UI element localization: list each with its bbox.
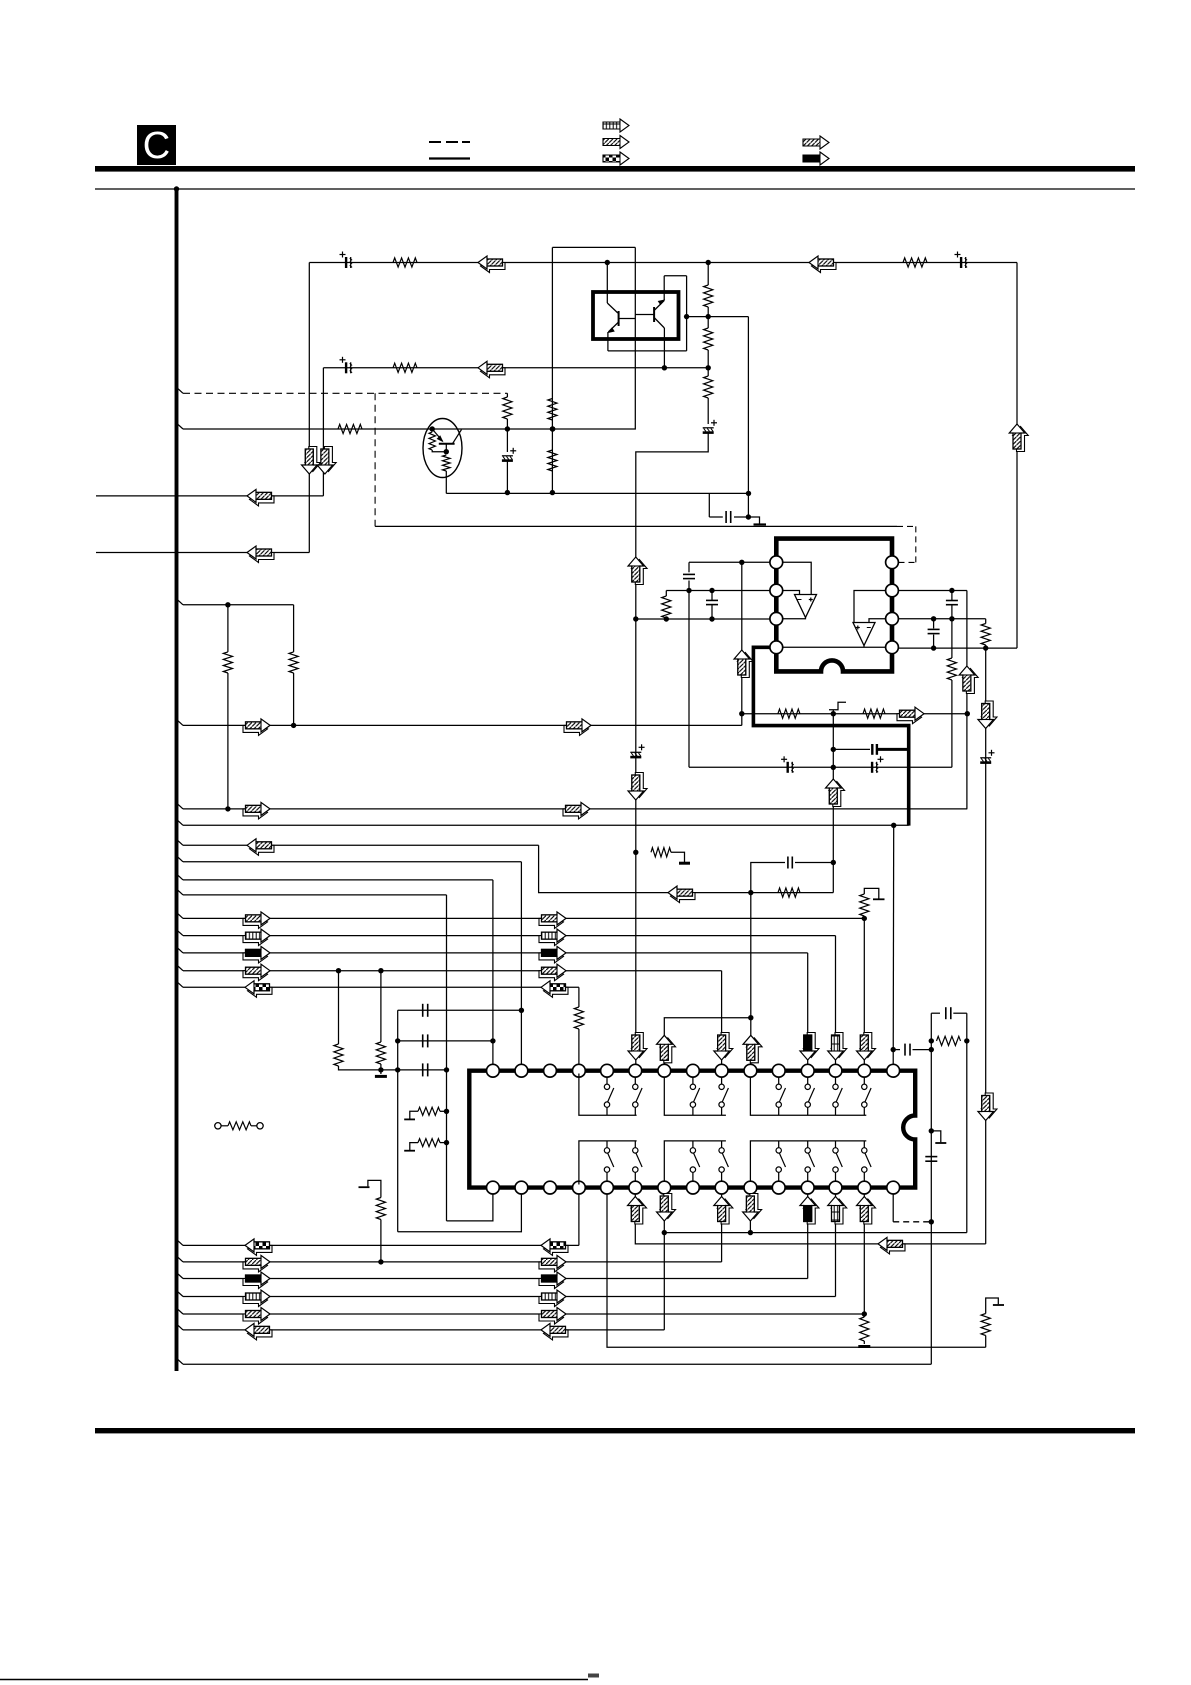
wire I from bus y918: [177, 913, 183, 918]
switch S10 bottom: [634, 1141, 636, 1148]
wire W2 return to margin y496: [96, 495, 323, 497]
net left drop x552: [551, 247, 553, 492]
capacitor C8 below pin1 corner: [688, 562, 690, 572]
node x708-y316: [706, 314, 711, 319]
wire W3 corner up to x635 segment: [553, 247, 636, 429]
U3 bottom switch common group3: [750, 1141, 866, 1181]
x751 drop to pin10 net: [750, 893, 752, 1065]
pin9b riser: [721, 1194, 723, 1262]
arrow left y893: [671, 890, 696, 903]
wire K drop to pin12t: [807, 953, 809, 1064]
wire W1 left drop x309: [308, 263, 310, 553]
node rail end x748: [746, 491, 751, 496]
U3 bottom switch common group1: [579, 1141, 637, 1185]
arrow right N3 b: [539, 1276, 564, 1289]
wire N2 y1262: [177, 1257, 183, 1262]
arrow left wireM b: [544, 984, 569, 997]
arrow down x986 upper: [981, 701, 997, 726]
wire W1 right drop to opamp pin4 net: [1016, 263, 1018, 649]
arrow right N2 a: [243, 1259, 268, 1272]
legend arrow black: [803, 152, 829, 165]
node x636-y852: [633, 850, 638, 855]
resistor R5 on W3: [338, 424, 362, 433]
vertical x398: [397, 1010, 399, 1231]
wire y714 right: [742, 713, 968, 715]
node pin2R-x952: [949, 588, 954, 593]
x864 drop to pin14t: [863, 918, 865, 1064]
switch S8 top: [863, 1077, 865, 1084]
Q1 base-emitter link: [432, 450, 446, 452]
arrow up x967: [963, 669, 979, 694]
resistor R26 x986 bottom: [985, 1336, 987, 1348]
arrow W1 left hatch: [481, 260, 506, 273]
capacitor C6 polarized on x636: [630, 744, 644, 757]
Q3 bar: [653, 307, 655, 322]
node x507-rail: [505, 490, 510, 495]
capacitor C13 polarized y767 right: [872, 756, 883, 773]
wire J from bus y936: [177, 930, 183, 935]
U3 top pin 7: [658, 1064, 671, 1077]
wire y767 with polarized caps: [689, 766, 952, 768]
node W2-x708: [706, 365, 711, 370]
node x967-y1041: [964, 1038, 969, 1043]
arrow down on x309: [305, 447, 321, 472]
net top link y247: [552, 246, 635, 248]
wire N4 y1297: [177, 1291, 183, 1296]
node wireI-x864: [862, 916, 867, 921]
legend arrow hatch: [603, 136, 629, 149]
resistor R13 on y714: [778, 709, 800, 718]
arrow down pin7b: [660, 1194, 676, 1219]
U3 top pin 15: [887, 1064, 900, 1077]
node x552-y429: [550, 426, 555, 431]
node x712-y619: [709, 616, 714, 621]
A1 input link from pin2: [783, 591, 800, 595]
capacitor C12 polarized y767 left: [781, 756, 794, 773]
U3 bottom pin 4: [573, 1181, 586, 1194]
arrow right wireL b: [539, 968, 564, 981]
ground bar below R28: [858, 1345, 870, 1348]
capacitor C19 y1041: [422, 1034, 424, 1047]
node y893-x751: [748, 890, 753, 895]
U3 top pin 4: [573, 1064, 586, 1077]
arrow up x742: [738, 653, 754, 678]
node x931-y1041: [929, 1038, 934, 1043]
link from C5 to long vertical x636: [636, 433, 708, 1064]
resistor R11 right of x636: [651, 848, 671, 857]
switch S14 bottom: [807, 1141, 809, 1148]
resistor R13b on y714: [863, 709, 885, 718]
arrow right wireC b: [563, 806, 588, 819]
arrow W2 left hatch: [481, 365, 506, 378]
capacitor C2 polarized on W1 right: [955, 252, 968, 269]
arrow up pin10t: [747, 1038, 763, 1063]
wire J drop to pin13t: [835, 936, 837, 1065]
resistor R8 x708 top: [707, 263, 709, 286]
arrow right N4 a: [243, 1294, 268, 1307]
U3 top switch common group3: [750, 1077, 866, 1115]
wire E drop and run y893: [539, 845, 834, 892]
A2 output link to pin4 rail: [863, 646, 865, 648]
U3 bottom pin 6: [629, 1181, 642, 1194]
arrow down pin10b: [746, 1194, 762, 1219]
arrow right N4 b: [539, 1294, 564, 1307]
rail y493 under transistor area: [446, 492, 748, 494]
resistor R18 y893: [778, 888, 800, 897]
wire N3 y1278: [177, 1273, 183, 1278]
U3 bottom pin 12: [801, 1181, 814, 1194]
node x493-y1041: [490, 1038, 495, 1043]
arrow W1 left hatch 2: [812, 260, 837, 273]
dashed corner into opamp right pin1: [897, 525, 916, 527]
U2 pin1 right: [886, 556, 899, 569]
top rule thick: [95, 166, 1135, 172]
node x833-y862: [831, 860, 836, 865]
x686 drop: [686, 276, 688, 351]
U3 bottom pin 15: [887, 1181, 900, 1194]
capacitor C3 polarized on W2: [340, 357, 353, 374]
arrow left wireM a: [248, 984, 273, 997]
node x893-y1050: [891, 1047, 896, 1052]
node W3-x552: [550, 426, 555, 431]
arrow down x986 lower: [981, 1093, 997, 1118]
legend arrow hatch 2: [803, 136, 829, 149]
switch S4 top: [721, 1077, 723, 1084]
arrow up pin12b: [803, 1199, 819, 1224]
pin15 riser x894: [892, 825, 895, 1064]
A1 output link to pin3: [783, 618, 806, 619]
U3 bottom pin 8: [687, 1181, 700, 1194]
Q2 emitter diagonal with arrow: [608, 322, 618, 332]
U3 top pin 10: [744, 1064, 757, 1077]
capacitor C20 y1050: [893, 1049, 900, 1051]
U3 bottom pin 13: [829, 1181, 842, 1194]
dashed wire from bus y393: [177, 388, 183, 393]
capacitor C9 x712: [711, 591, 713, 601]
svg-text:C: C: [143, 125, 170, 167]
U2 pin3 right: [886, 612, 899, 625]
wire N6 y1330: [177, 1325, 183, 1330]
vertical x833 chain: [832, 714, 834, 893]
node pin4R-x934: [931, 645, 936, 650]
U3 top switch common group2: [664, 1077, 726, 1115]
resistor R14 x986: [985, 619, 987, 624]
arrow right wireL a: [243, 968, 268, 981]
wire y1070 caps row: [381, 1069, 447, 1071]
resistor R3 on W2: [393, 363, 417, 372]
wire W3 from bus y429: [177, 424, 183, 429]
node W3-x507: [505, 426, 510, 431]
Q1 emitter lead to rail: [445, 471, 447, 493]
resistor R15 x952 lower: [951, 619, 953, 658]
U3 bottom switch common group2: [664, 1141, 726, 1181]
switch S15 bottom: [835, 1141, 837, 1148]
wire C from bus y809: [177, 804, 183, 809]
U2 right pin4 wire: [899, 647, 1018, 649]
node x751-y1018: [748, 1015, 753, 1020]
wire F from bus y862: [177, 857, 183, 862]
Q1 base node: [430, 426, 435, 431]
U3 bottom pin 3: [544, 1181, 557, 1194]
resistor R12 below pin2 corner: [665, 591, 667, 597]
node pin3R-x934: [931, 616, 936, 621]
arrow down on x323: [321, 447, 337, 472]
pin6b riser and wire to x986: [635, 1194, 985, 1244]
A1 input link from pin1: [783, 562, 812, 594]
pin13b riser: [835, 1194, 837, 1297]
wire y725 from bus: [177, 720, 183, 725]
Q1 emitter stub: [445, 444, 447, 452]
link y316 to resistor chain: [687, 316, 749, 318]
switch S12 bottom: [721, 1141, 723, 1148]
wire N1 y1245: [177, 1240, 183, 1245]
arrow right y725 b: [564, 722, 589, 735]
arrow down pin13t: [831, 1033, 847, 1058]
switch S7 top: [835, 1077, 837, 1084]
capacitor C5 polarized x708: [703, 420, 717, 433]
wire y1233 under IC: [664, 1232, 967, 1234]
arrow up pin14b: [860, 1199, 876, 1224]
arrow down on x636: [632, 773, 648, 798]
arrow down pin9t: [717, 1033, 733, 1058]
legend solid-line sample: [429, 157, 470, 159]
A2 input link from right pin2: [854, 591, 886, 623]
transistor Q1 digital in ellipse: [423, 419, 462, 478]
node x521-y1010: [519, 1008, 524, 1013]
arrow down to pin6: [632, 1033, 648, 1058]
resistor R17 x294: [293, 605, 295, 652]
RC combo left vertical x931: [930, 1013, 932, 1364]
R27 step ground: [368, 1180, 381, 1197]
dashed drop x375: [374, 393, 376, 526]
wire G from bus y880: [177, 875, 183, 880]
resistor R25 in combo: [937, 1036, 961, 1045]
wire W2 horizontal y368: [323, 367, 708, 369]
arrow right wireJ a: [243, 933, 268, 946]
resistor R21 x338: [338, 971, 340, 1044]
arrow right wireK a: [243, 950, 268, 963]
pin15b dashed link: [892, 1194, 894, 1222]
U2 right pin2 wire: [899, 590, 967, 592]
U2 pin1 wire left: [689, 561, 770, 563]
transistor-pair IC U1 thick box: [593, 292, 679, 339]
arrow right N5 a: [243, 1311, 268, 1324]
wire x748 drop: [747, 317, 749, 517]
switch S1 top: [606, 1077, 608, 1084]
arrow left N1 b: [544, 1242, 569, 1255]
resistor R16 x228: [227, 605, 229, 652]
node x931-y1050: [929, 1047, 934, 1052]
U3 top pin 9: [715, 1064, 728, 1077]
node wireL-x338: [336, 968, 341, 973]
wire W1 return to margin y552: [96, 552, 309, 554]
legend dashed-line sample: [429, 141, 441, 143]
capacitor C11 x934: [933, 619, 935, 629]
arrow left N6 b: [544, 1327, 569, 1340]
wire N5 y1314: [177, 1309, 183, 1314]
U3 bottom pin 2: [515, 1181, 528, 1194]
arrow right wireK b: [539, 950, 564, 963]
capacitor C1 polarized on W1: [340, 252, 353, 269]
node y1233-x664: [662, 1230, 667, 1235]
U2 internal pin4 rail: [783, 646, 886, 648]
node y1070-x381: [378, 1067, 383, 1072]
node x931-y1222: [929, 1219, 934, 1224]
Q2 base link to x635: [619, 318, 636, 320]
U3 bottom pin 10: [744, 1181, 757, 1194]
wire M drop to pin4t: [578, 987, 580, 1007]
wire y1010 cap row: [398, 1009, 522, 1011]
switch S6 top: [807, 1077, 809, 1084]
step ground x931: [931, 1131, 941, 1142]
node wireL-x381: [378, 968, 383, 973]
U3 top pin 2: [515, 1064, 528, 1077]
resistor R2 on W1 right: [903, 258, 927, 267]
switch S16 bottom: [863, 1141, 865, 1148]
Q3 emitter drop to W2: [663, 328, 665, 368]
node x712-y590: [709, 588, 714, 593]
node y714-x967: [965, 711, 970, 716]
U2 pin4 left: [770, 641, 783, 654]
RC combo right vertical x967: [966, 1013, 968, 1232]
U3 top pin 1: [487, 1064, 500, 1077]
arrow left on y496: [250, 493, 275, 506]
node pin3R-x952: [949, 616, 954, 621]
resistor R27 x381 bottom: [380, 1220, 382, 1262]
x986 chain below pin4R: [985, 648, 987, 1244]
resistor R6 on x552 upper: [548, 399, 557, 421]
wire L from bus y971: [177, 966, 183, 971]
capacitor C22 x931: [925, 1156, 937, 1158]
section label C box: [137, 125, 176, 165]
arrow down pin14t: [860, 1033, 876, 1058]
wire E from bus y845: [177, 840, 183, 845]
U2 pin2 wire left: [666, 590, 770, 592]
arrow right y714: [897, 711, 922, 724]
node x686-y316: [684, 314, 689, 319]
vertical x967 wire-C riser: [966, 591, 968, 809]
node y605-x228: [225, 602, 230, 607]
Q1 emitter resistor: [443, 455, 451, 471]
arrow left on y552: [250, 550, 275, 563]
U3 bottom pin 5: [601, 1181, 614, 1194]
resistor R22 x381: [380, 971, 382, 1042]
switch S9 bottom: [606, 1141, 608, 1148]
resistor R9 x708 mid: [707, 317, 709, 328]
Q2 bar: [618, 311, 620, 326]
U3 top pin 6: [629, 1064, 642, 1077]
A2 input link from right pin3: [869, 619, 886, 623]
resistor R4 below dashed corner: [506, 393, 508, 397]
arrow up pin6b: [631, 1199, 647, 1224]
bottom rule thick: [95, 1428, 1135, 1433]
pin2b link: [398, 1194, 522, 1232]
wire W2 left drop x323: [322, 368, 324, 496]
node x398-y1041: [395, 1038, 400, 1043]
arrow right wireJ b: [539, 933, 564, 946]
pin12b riser: [807, 1194, 809, 1279]
thick capacitor C14 to thick net: [833, 748, 870, 750]
Q3 collector riser: [663, 276, 665, 301]
jumper component with terminals: [215, 1123, 221, 1129]
node x748-y517: [746, 514, 751, 519]
node x931-y1131: [929, 1128, 934, 1133]
arrow left y1244 right side: [881, 1241, 906, 1254]
Q1 bar: [439, 443, 455, 445]
arrow right wireC a: [243, 806, 268, 819]
Q2 emitter drop: [607, 332, 609, 351]
wire H drop x446: [446, 895, 448, 1221]
arrow right N5 b: [539, 1311, 564, 1324]
arrow left wireE: [250, 842, 275, 855]
node y767-x833: [831, 765, 836, 770]
rail y351 inside: [608, 350, 687, 352]
switch S3 top: [692, 1077, 694, 1084]
arrow right wireI a: [243, 915, 268, 928]
pin1b link: [447, 1194, 493, 1221]
wire W1 top horizontal y262: [309, 262, 1017, 264]
node x689-y590: [686, 588, 691, 593]
pin5b drop: [607, 1194, 986, 1347]
footer line: [0, 1679, 588, 1681]
capacitor C16 y862: [787, 857, 789, 869]
pin7 link y1018: [664, 1018, 751, 1065]
wire M from bus y987: [177, 982, 183, 987]
arrow down pin12t: [803, 1033, 819, 1058]
wire L drop to pin9t: [721, 971, 723, 1065]
switch IC U3 thick box: [469, 1071, 915, 1188]
U3 top pin 8: [687, 1064, 700, 1077]
op-amp IC U2 thick box: [776, 539, 892, 672]
Q3 collector diagonal with arrow: [654, 301, 664, 311]
bus vertical line: [175, 189, 179, 1371]
U3 top pin 14: [858, 1064, 871, 1077]
resistor R28 below N5: [863, 1314, 865, 1317]
op-amp A1 triangle: [795, 595, 817, 618]
x338 corner to y1070: [339, 1066, 381, 1070]
arrow up pin9b: [717, 1199, 733, 1224]
switch S13 bottom: [778, 1141, 780, 1148]
U2 pin3 wire left: [636, 618, 770, 620]
node pin4R-x986: [983, 645, 988, 650]
node x446-y1143: [444, 1140, 449, 1145]
switch S5 top: [778, 1077, 780, 1084]
U3 top pin 3: [544, 1064, 557, 1077]
arrow right wireI b: [539, 915, 564, 928]
wire y605 from bus: [177, 600, 183, 605]
node x552-rail: [550, 490, 555, 495]
node wireC-x228: [225, 806, 230, 811]
pin10b drop: [749, 1194, 751, 1233]
node x742-y714: [739, 711, 744, 716]
U2 pin2 left: [770, 584, 783, 597]
pin7b drop: [663, 1194, 665, 1330]
node y714-x833: [831, 711, 836, 716]
node x666-y619: [664, 616, 669, 621]
Q1 base resistor: [429, 432, 435, 450]
x952 link to y767: [951, 680, 953, 767]
node W2-x664: [662, 365, 667, 370]
long wire y526 from dashed drop: [375, 525, 897, 527]
ground step above R19: [864, 888, 879, 898]
node y725-x294: [291, 723, 296, 728]
U2 pin3 left: [770, 612, 783, 625]
x751 riser to cap: [751, 863, 785, 893]
capacitor C15 polarized x986: [980, 750, 994, 763]
Q3 emitter diagonal: [654, 318, 664, 329]
resistor R1 on W1: [393, 258, 417, 267]
arrow right N2 b: [539, 1259, 564, 1272]
